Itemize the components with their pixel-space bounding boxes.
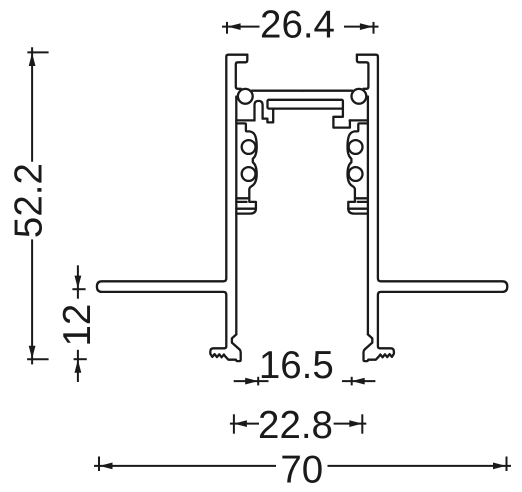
arrowhead 52.2 bottom [29,346,36,359]
arrowhead 26.4 left [228,23,241,30]
dim 22.8 line right [334,423,367,425]
dim 16.5 line left [234,380,269,382]
arrowhead 12 lower (points up) [75,360,82,373]
svg-text:16.5: 16.5 [259,344,334,387]
dim 12 stub upper [72,288,85,290]
shelf between finger and cover bar [263,109,274,123]
dim 16.5 tick right [351,377,353,386]
arrowhead 26.4 right [360,23,373,30]
dim 12 line lower [77,350,79,382]
dim 26.4 extension tick left [226,22,228,34]
anti-misinstallation key finger [255,101,263,121]
dim 52.2 stub top [27,51,48,53]
arrowhead 70 left [100,463,113,470]
under-bar right support steps [333,109,350,128]
dim 52.2 stub bottom [27,358,48,360]
dim 12 stub lower [74,358,87,360]
dim 22.8 tick left [233,414,235,433]
svg-text:52.2: 52.2 [8,163,51,238]
dim 70 line left [94,465,276,467]
dim 52.2 line upper [31,47,33,162]
dim 12 line upper [77,265,79,298]
arrowhead 70 right [493,463,506,470]
svg-text:22.8: 22.8 [258,404,333,447]
dim 26.4 line right [344,26,379,28]
dim 70 tick right [506,457,508,472]
dim 16.5 line right [342,380,375,382]
svg-text:26.4: 26.4 [260,4,335,47]
arrowhead 12 upper (points down) [75,276,82,289]
dim 26.4 line left [222,26,260,28]
svg-text:70: 70 [280,449,323,492]
dim 70 tick left [98,457,100,472]
right half of profile (mirrored) [302,55,507,361]
arrowhead 16.5 left (points right) [245,378,258,385]
arrowhead 16.5 right (points left) [352,378,365,385]
svg-text:12: 12 [56,304,99,347]
dim 16.5 tick left [257,377,259,386]
arrowhead 52.2 top [29,53,36,66]
dim 22.8 tick right [361,414,363,433]
dim 52.2 line lower [31,239,33,364]
cover bar (lid plate) [268,100,343,109]
dim 70 line right [328,465,512,467]
arrowhead 22.8 left [234,420,247,427]
left half of profile [97,55,302,361]
dim 22.8 line left [230,423,259,425]
dim 26.4 extension tick right [373,22,375,34]
arrowhead 22.8 right [349,420,362,427]
